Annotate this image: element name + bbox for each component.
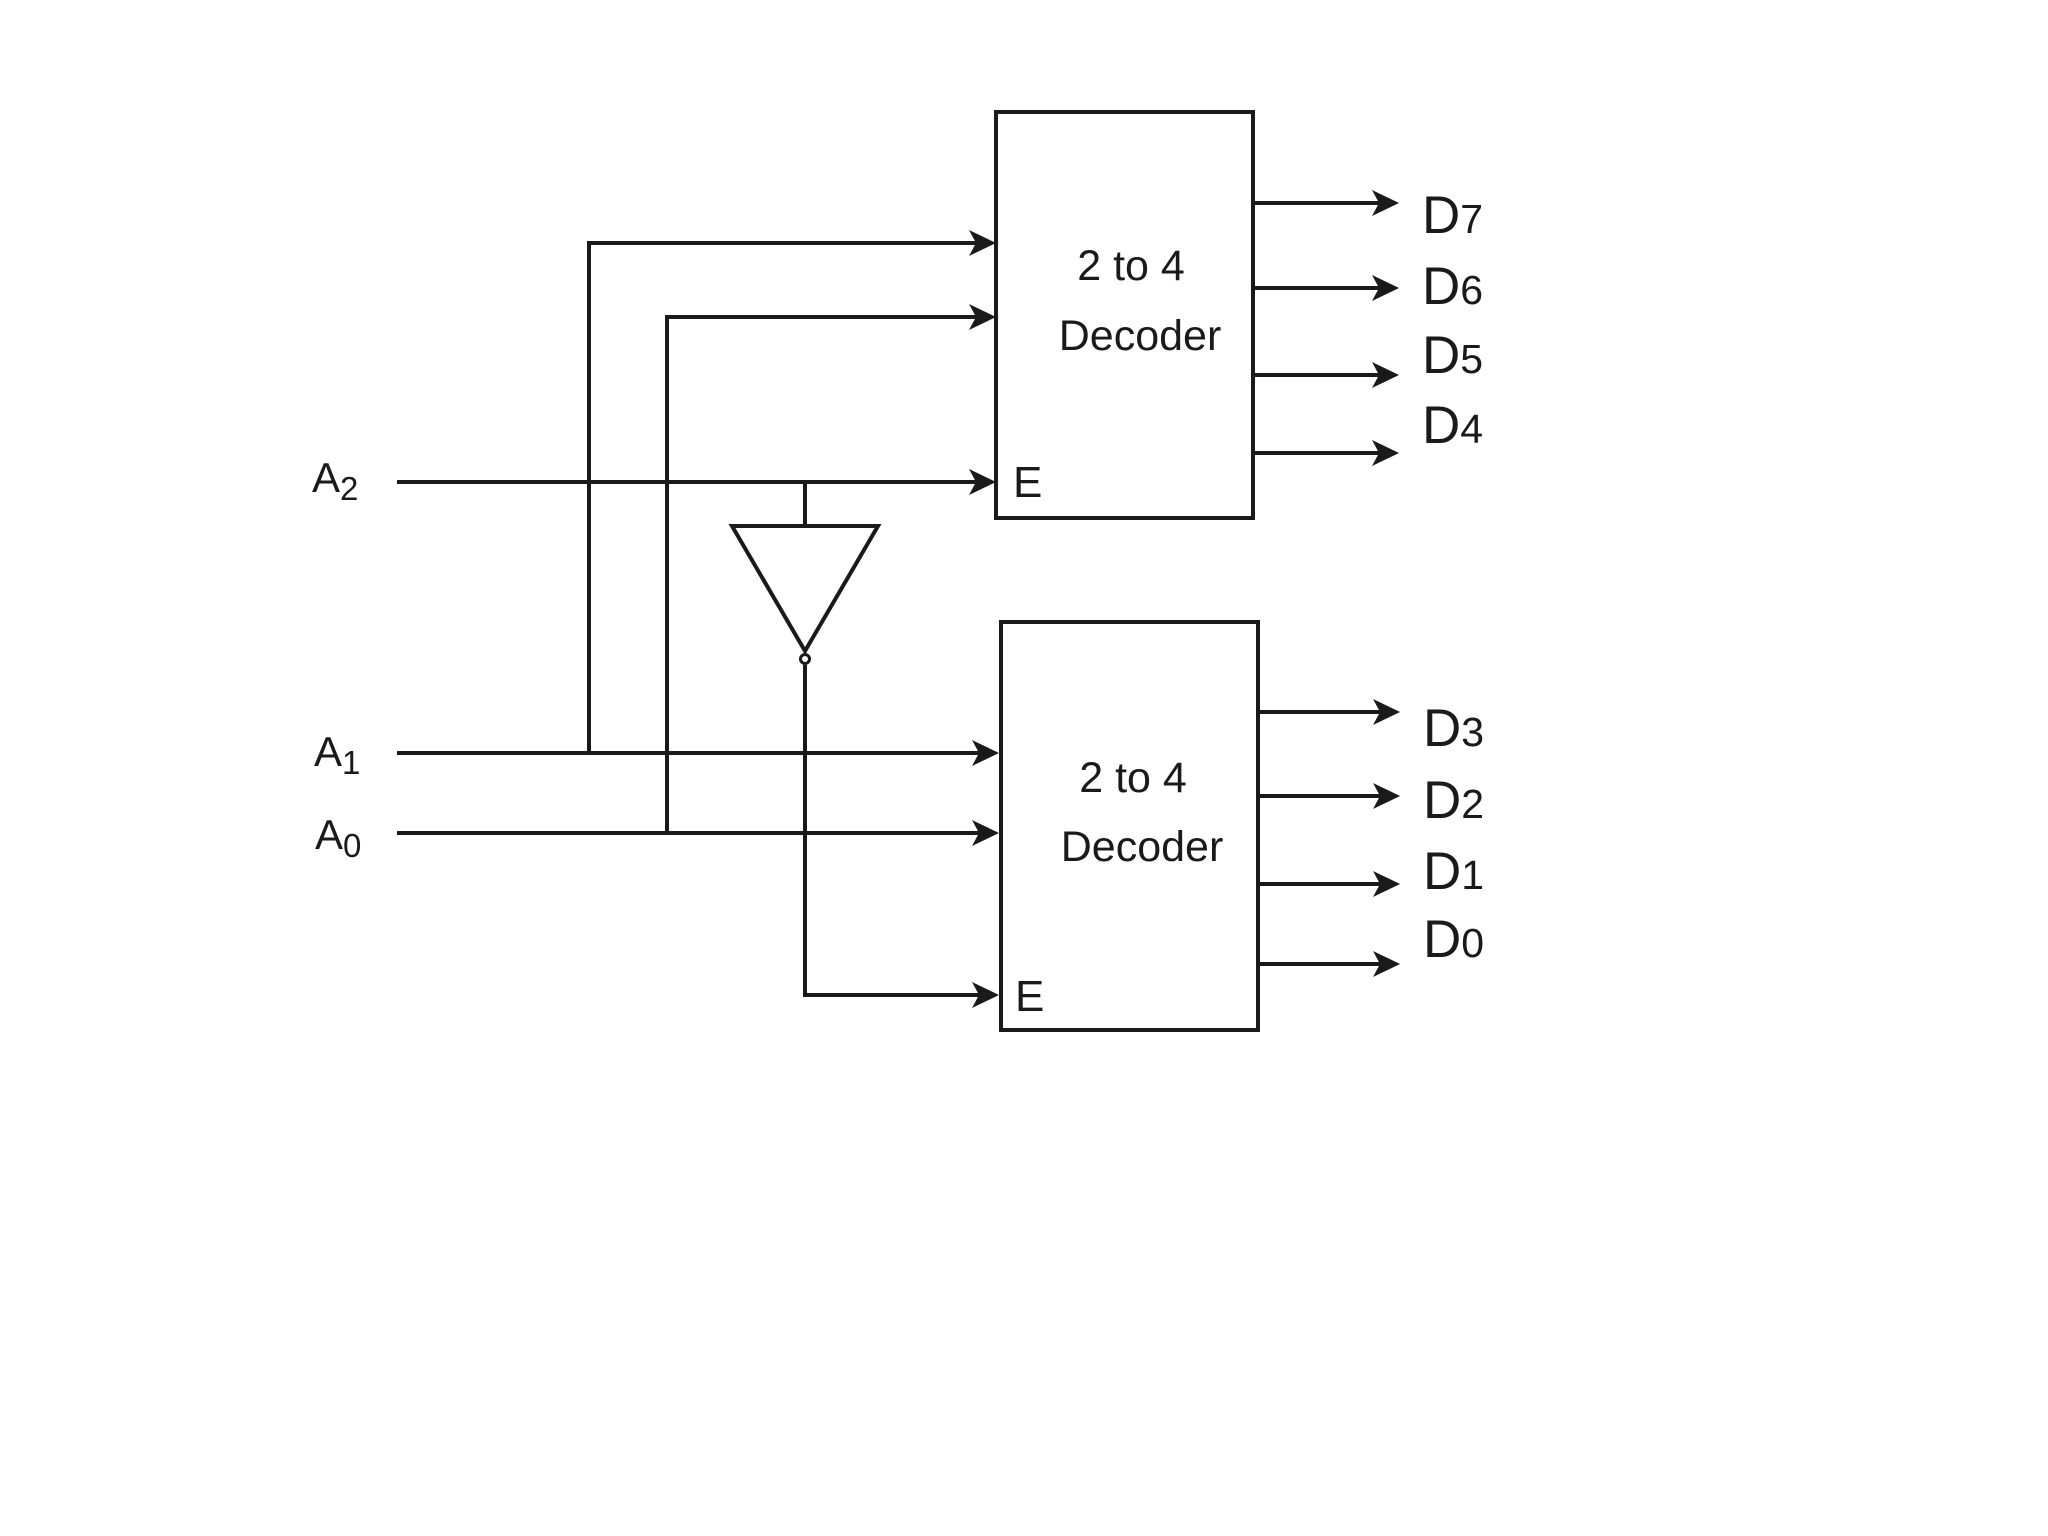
inverter (NOT gate) triangle (732, 526, 878, 651)
arrowhead D7 (1372, 190, 1399, 216)
svg-text:E: E (1013, 458, 1042, 507)
wire U1 output D7 (1253, 201, 1380, 205)
arrowhead D5 (1372, 362, 1399, 388)
wire A2 to U1 pin E (397, 480, 977, 484)
wire U1 output D4 (1253, 451, 1380, 455)
svg-text:2 to 4: 2 to 4 (1077, 242, 1185, 290)
svg-text:Decoder: Decoder (1061, 823, 1224, 871)
svg-text:Decoder: Decoder (1059, 312, 1222, 360)
arrowhead into U2 pin E (972, 982, 999, 1008)
inverter output bubble (801, 655, 810, 664)
arrowhead into U2 input 1 (972, 740, 999, 766)
wire U2 output D3 (1258, 710, 1381, 714)
arrowhead D4 (1372, 440, 1399, 466)
wire A0 branch riser to U1 input 2 (667, 317, 977, 833)
wire inverter output to U2 pin E (805, 665, 980, 995)
arrowhead D3 (1373, 699, 1400, 725)
wire U2 output D2 (1258, 794, 1381, 798)
arrowhead D0 (1373, 951, 1400, 977)
arrowhead D6 (1372, 275, 1399, 301)
wire U1 output D6 (1253, 286, 1380, 290)
arrowhead D2 (1373, 783, 1400, 809)
decoder U2 (bottom 2-to-4 decoder) box (1001, 622, 1258, 1030)
arrowhead into U1 input 1 (969, 230, 996, 256)
wire U2 output D0 (1258, 962, 1381, 966)
decoder U1 (top 2-to-4 decoder) box (996, 112, 1253, 518)
arrowhead into U2 input 2 (972, 820, 999, 846)
wire U2 output D1 (1258, 882, 1381, 886)
wire A1 branch riser to U1 input 1 (589, 243, 977, 753)
wire A1 to U2 input 1 (397, 751, 980, 755)
arrowhead into U1 input 2 (969, 304, 996, 330)
wire A0 to U2 input 2 (397, 831, 980, 835)
svg-text:2 to 4: 2 to 4 (1079, 754, 1187, 802)
arrowhead D1 (1373, 871, 1400, 897)
wire A2 stem down to inverter input (803, 482, 807, 528)
arrowhead into U1 pin E (969, 469, 996, 495)
wire U1 output D5 (1253, 373, 1380, 377)
svg-text:E: E (1015, 972, 1044, 1021)
